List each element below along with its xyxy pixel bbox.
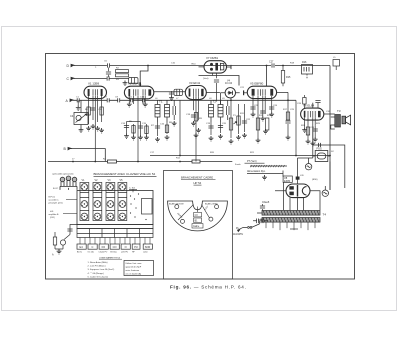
capacitor (138, 126, 143, 128)
svg-text:BRANCHEMENT CADRE: BRANCHEMENT CADRE (181, 175, 213, 179)
ground (165, 135, 170, 140)
capacitor at L7 (169, 92, 174, 94)
wire under V7 (199, 76, 240, 86)
capacitor C1 on A line (77, 98, 79, 102)
tag box SOR (143, 244, 152, 249)
ground (131, 135, 136, 140)
capacitor on V7 lead (214, 80, 219, 82)
resistor R6b (116, 74, 129, 77)
terminal C (71, 77, 75, 79)
components under V3 (191, 110, 199, 121)
svg-text:Utiliser l'ant. avec: Utiliser l'ant. avec (126, 262, 142, 265)
wire V2 to V3 (154, 91, 186, 93)
svg-text:3. Suppress Lum 40 (GmC): 3. Suppress Lum 40 (GmC) (88, 268, 115, 271)
T4 bottom pins (266, 222, 315, 230)
socket strip 2 (93, 183, 102, 221)
components under T2 / detector (208, 98, 247, 138)
svg-text:OC CA: OC CA (88, 251, 95, 254)
tag box PU (132, 244, 140, 249)
heater hatched line (250, 165, 287, 167)
svg-text:C1: C1 (76, 97, 80, 99)
capacitor (106, 72, 111, 74)
capacitor (285, 121, 290, 123)
svg-text:R7: R7 (151, 125, 155, 127)
svg-text:BRANCHEMENT AVEC CLAVIER VDE-H: BRANCHEMENT AVEC CLAVIER VDE-HC 54 (94, 172, 156, 176)
ground (269, 112, 274, 117)
svg-text:ext. et douille (A): ext. et douille (A) (126, 273, 142, 276)
cadre half-disc (168, 201, 228, 231)
svg-text:B: B (64, 147, 67, 151)
capacitor (124, 126, 129, 128)
ground (172, 121, 177, 126)
svg-text:CV: CV (195, 215, 199, 217)
wire bottom bus 2 (48, 161, 232, 163)
wire right bus (329, 66, 331, 191)
svg-text:D: D (67, 64, 70, 68)
svg-text:C19: C19 (206, 123, 211, 125)
svg-text:R17: R17 (283, 109, 288, 111)
PT vert wire (245, 162, 265, 164)
svg-text:R1: R1 (85, 109, 89, 111)
svg-text:BLOC: BLOC (77, 252, 83, 254)
capacitor (67, 229, 72, 231)
terminal B (68, 147, 72, 149)
capacitor (242, 121, 247, 123)
box L5 top right (333, 60, 340, 71)
ground (218, 134, 223, 139)
tube V3 EF41 (185, 86, 220, 162)
ground on alim (262, 175, 267, 180)
svg-text:17: 17 (72, 159, 75, 161)
svg-text:accordée à: accordée à (49, 200, 60, 202)
cadre center labels (192, 213, 203, 229)
tag box O (121, 244, 130, 249)
ground (242, 133, 247, 138)
ground (256, 138, 261, 143)
svg-text:R2: R2 (116, 68, 120, 70)
capacitor on A line 4 (131, 98, 133, 102)
svg-text:PT (Vert): PT (Vert) (247, 160, 257, 163)
tag box C (88, 244, 97, 249)
svg-text:L9: L9 (222, 98, 225, 100)
components under V2 (124, 122, 148, 136)
svg-text:R20: R20 (210, 152, 215, 154)
capacitor link D-C (108, 68, 110, 78)
svg-text:Alimentation Dyn.: Alimentation Dyn. (247, 170, 266, 173)
components under V5 (250, 102, 274, 138)
svg-text:C18: C18 (186, 114, 191, 116)
tube V8 EZ80 (286, 184, 310, 198)
capacitor (191, 115, 196, 117)
tube V2 ECH81 (124, 82, 153, 110)
svg-text:C10: C10 (171, 63, 176, 65)
svg-text:R25: R25 (316, 123, 321, 125)
ground (310, 141, 315, 146)
mains transformer T4 primary (262, 211, 320, 216)
terminal D (71, 64, 75, 66)
scattered value labels (72, 61, 334, 182)
svg-text:V5: V5 (120, 179, 124, 182)
svg-text:SOR: SOR (145, 245, 151, 249)
svg-text:R4: R4 (103, 159, 107, 161)
svg-text:T3: T3 (337, 109, 341, 113)
ground (95, 126, 100, 131)
tuning gang C4 (74, 100, 88, 127)
svg-text:appareil de 25pF: appareil de 25pF (126, 266, 142, 269)
capacitor (208, 126, 213, 128)
capacitor on A line 3 (118, 98, 120, 102)
svg-text:GO bloc: GO bloc (110, 252, 117, 254)
wire D line (75, 65, 330, 67)
wire V2 anode feed (140, 66, 148, 87)
output transformer T3 coil (331, 115, 341, 130)
svg-text:V7 DM81: V7 DM81 (206, 56, 218, 60)
svg-text:(précablé) spécial (D): (précablé) spécial (D) (53, 173, 74, 176)
speaker cone (342, 115, 351, 125)
svg-text:sortie: sortie (143, 251, 148, 254)
clavier bar (77, 225, 153, 238)
svg-text:BLANC-ROUGE: BLANC-ROUGE (169, 203, 184, 206)
tube V7 DM81 (199, 61, 232, 102)
cadre radial wires (178, 205, 210, 221)
svg-text:R12: R12 (176, 158, 181, 160)
svg-text:S2: S2 (331, 151, 334, 153)
coupling coil L7 (172, 89, 183, 95)
svg-text:C: C (67, 77, 70, 81)
tag box E4 (77, 244, 86, 249)
svg-text:LIGNE BARRETTE A: LIGNE BARRETTE A (99, 256, 120, 259)
ground at L4 (123, 81, 128, 86)
ground (196, 128, 201, 133)
alimentation dyn wire (247, 171, 283, 177)
svg-text:T4: T4 (323, 213, 327, 217)
secteur cap pair (253, 219, 268, 224)
svg-text:B.CC: B.CC (53, 188, 59, 190)
ground left circuit (57, 249, 62, 254)
clavier to tags wires (80, 238, 150, 245)
ground (91, 124, 96, 129)
svg-text:1. Noire Antre (MHz): 1. Noire Antre (MHz) (88, 261, 108, 264)
svg-text:C25: C25 (290, 109, 295, 111)
socket strip 3 (106, 183, 115, 221)
svg-text:R21: R21 (250, 152, 255, 154)
panel border: branchement cadre (164, 171, 233, 280)
resistor above V6 (303, 95, 306, 108)
capacitor C7 on A line (107, 98, 109, 102)
svg-text:R16: R16 (302, 61, 307, 64)
svg-text:C16: C16 (160, 124, 165, 126)
ground (263, 129, 268, 134)
capacitor (269, 107, 274, 109)
wire C line (75, 78, 129, 80)
svg-text:CO: CO (113, 245, 117, 249)
legend right box (124, 261, 154, 276)
wire V5 agc feed (266, 66, 268, 87)
svg-text:R11: R11 (240, 113, 245, 115)
svg-text:Fusib.: Fusib. (235, 164, 241, 166)
IF transformer T1 (155, 100, 176, 122)
chassis rectangle (77, 191, 153, 225)
capacitor on A line 5 (143, 98, 145, 102)
grounds under V1 (86, 126, 91, 131)
svg-text:C17: C17 (150, 152, 155, 154)
grounds under V3 (191, 121, 196, 126)
components under T1 (155, 100, 180, 155)
svg-text:R9: R9 (199, 118, 203, 120)
ground (138, 135, 143, 140)
svg-text:V5 EBF80: V5 EBF80 (250, 81, 264, 85)
antenna plugs (60, 176, 77, 190)
socket strip 1 (80, 183, 89, 221)
cadre terminal circles (175, 205, 219, 224)
svg-text:R24: R24 (301, 125, 306, 127)
svg-text:FO: FO (102, 245, 106, 249)
svg-text:V3: V3 (108, 179, 112, 182)
ground (144, 135, 149, 140)
ground (260, 116, 265, 121)
svg-text:C21: C21 (240, 87, 245, 89)
svg-text:C7: C7 (104, 97, 108, 99)
grounds under T2 (209, 136, 214, 141)
svg-text:R3: R3 (116, 79, 120, 81)
svg-text:E4: E4 (80, 245, 84, 249)
svg-text:R18: R18 (290, 63, 295, 65)
svg-text:HP 54: HP 54 (194, 181, 202, 185)
svg-text:V1 12B9: V1 12B9 (88, 82, 99, 86)
svg-text:P1: P1 (233, 115, 236, 117)
mains transformer T4 secondary (262, 218, 320, 223)
capacitor on C line (107, 76, 109, 80)
capacitor (260, 206, 265, 208)
svg-text:BLEU: BLEU (204, 205, 209, 211)
ground (229, 139, 234, 144)
tube V1 12B9 (84, 86, 107, 108)
svg-text:C11: C11 (128, 97, 133, 99)
svg-text:5. Cadre GO (Jaune): 5. Cadre GO (Jaune) (88, 275, 109, 278)
svg-text:H.F.: H.F. (50, 211, 54, 213)
ground (194, 133, 199, 138)
ground (306, 139, 311, 144)
pilot lamp LP1 (305, 158, 311, 170)
svg-text:T1: T1 (159, 100, 163, 104)
resistor R6a (116, 70, 129, 73)
diode D1 1N34 (221, 88, 248, 98)
wire bottom bus 1 (150, 155, 330, 157)
box R16 (302, 65, 313, 80)
svg-text:V2: V2 (95, 179, 99, 182)
svg-text:C20: C20 (222, 123, 227, 125)
capacitor C27 top right (272, 63, 274, 67)
svg-text:B1: B1 (195, 220, 199, 222)
svg-text:4. “ “ 60 (Rouge): 4. “ “ 60 (Rouge) (88, 273, 104, 275)
tube V5 EBF80 (247, 86, 276, 110)
grounds under V6 (302, 128, 307, 133)
svg-text:C13: C13 (140, 97, 145, 99)
wire A line (74, 99, 296, 101)
secteur arrow (238, 227, 244, 231)
svg-text:C27: C27 (269, 61, 274, 64)
pilot lamp LP2 (322, 186, 328, 196)
capacitor on D line (107, 63, 109, 67)
svg-text:A: A (52, 254, 54, 257)
svg-text:V3 EF41: V3 EF41 (189, 81, 201, 85)
wire V2 to bus (137, 110, 139, 162)
svg-text:Chauff.: Chauff. (262, 201, 270, 204)
wire note1 arrow (66, 199, 77, 201)
terminal A (70, 99, 74, 101)
resistor R15 (281, 66, 284, 87)
svg-text:L5: L5 (333, 57, 336, 59)
svg-text:arrêt PU: arrêt PU (121, 251, 129, 254)
svg-text:(Vert): (Vert) (203, 77, 209, 80)
svg-text:C: C (92, 245, 94, 249)
psu dial-lamp box (298, 128, 345, 190)
capacitor (315, 101, 320, 103)
svg-text:FUS: FUS (317, 147, 322, 151)
fuse FUS (313, 151, 330, 162)
chassis misc dots (130, 193, 147, 220)
label box V8 EZ80 (283, 176, 292, 182)
svg-text:L6: L6 (155, 98, 158, 100)
wire V1 to bus (94, 108, 96, 162)
resistor series on bus 2b (192, 160, 200, 163)
svg-text:(241): (241) (50, 217, 55, 219)
svg-text:HP: HP (132, 252, 135, 254)
svg-text:C24: C24 (273, 105, 278, 107)
wire V8 leads (275, 176, 320, 210)
ground (236, 135, 241, 140)
ground under V2 left (127, 102, 132, 107)
svg-text:entre l'antenne: entre l'antenne (126, 269, 141, 272)
svg-text:110/245V: 110/245V (233, 233, 243, 236)
svg-text:V1: V1 (82, 179, 86, 182)
grounds under V2 (124, 134, 129, 139)
capacitor (218, 126, 223, 128)
ground (99, 128, 104, 133)
svg-text:(R30): (R30) (312, 179, 318, 181)
wire note2 arrow (63, 213, 77, 215)
grounds under T1 (155, 137, 160, 142)
svg-text:Chalut PO: Chalut PO (99, 251, 108, 254)
tube V6 EL84 (301, 103, 335, 130)
cap C2 to ground (77, 100, 79, 105)
svg-text:BLANC-VERT: BLANC-VERT (205, 203, 218, 206)
svg-text:C26: C26 (297, 103, 302, 105)
svg-text:A: A (66, 99, 69, 103)
svg-text:L7: L7 (176, 98, 179, 100)
left note block 2 (49, 211, 60, 219)
capacitor C31 (319, 143, 321, 147)
svg-text:a: a (95, 67, 97, 69)
svg-text:EZ80: EZ80 (284, 179, 291, 183)
ground under V2 right (143, 102, 148, 107)
coupling R/C V5-V6 (277, 92, 296, 155)
svg-text:R15: R15 (286, 76, 291, 79)
capacitor above V6 (315, 101, 320, 109)
svg-text:T2: T2 (213, 100, 217, 104)
ground (313, 137, 318, 142)
svg-text:PU: PU (134, 245, 138, 249)
capacitor C29 on V8 anode (296, 177, 300, 180)
capacitor (313, 129, 318, 131)
mains switch (243, 221, 260, 228)
capacitor (260, 111, 265, 113)
capacitor (155, 126, 160, 128)
svg-text:B.POur: B.POur (49, 197, 56, 199)
svg-text:Cadre: Cadre (193, 225, 200, 228)
svg-text:2. Lum PO (Blanc): 2. Lum PO (Blanc) (88, 266, 106, 268)
svg-text:C14: C14 (121, 123, 126, 125)
wire B line (72, 149, 105, 162)
left note block 1 (49, 197, 63, 205)
ground R V5V6 (286, 135, 291, 140)
ground under C4 (79, 128, 84, 133)
svg-text:amplifiée B.: amplifiée B. (49, 214, 60, 216)
heater pair wire (257, 204, 265, 220)
chassis inner box (142, 199, 153, 215)
svg-text:C22: C22 (246, 119, 251, 121)
socket strip 4 (118, 183, 127, 221)
IF transformer T2 (209, 100, 230, 122)
ground (76, 105, 81, 110)
ground at L7 (169, 96, 174, 101)
svg-text:C4: C4 (70, 114, 74, 118)
components under V1 (87, 102, 103, 124)
svg-text:Fig. 96. — Schéma H.P. 64.: Fig. 96. — Schéma H.P. 64. (170, 285, 247, 290)
osc coil L4 (129, 78, 139, 84)
svg-text:C9: C9 (115, 97, 119, 99)
capacitor (250, 107, 255, 109)
grounds under V5 (251, 112, 256, 117)
svg-text:C5: C5 (104, 61, 108, 63)
schematic main border (46, 54, 355, 280)
svg-text:C15: C15 (142, 123, 147, 125)
svg-text:O: O (125, 245, 127, 249)
tag box FO (99, 244, 108, 249)
svg-text:préamplif. (221): préamplif. (221) (49, 203, 63, 205)
tag box CO (110, 244, 119, 249)
components under V6 (305, 121, 318, 141)
junction dots (72, 65, 331, 163)
left-edge small circuit (53, 225, 77, 250)
resistor series on bus 2 (108, 160, 117, 163)
svg-text:L26: L26 (300, 175, 304, 177)
